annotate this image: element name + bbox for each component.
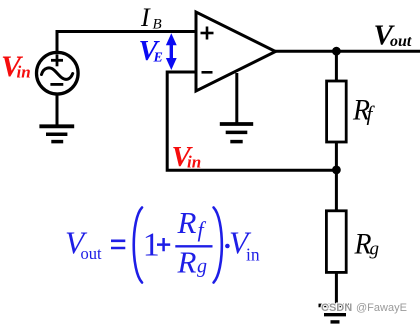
svg-text:R: R (177, 245, 197, 280)
svg-text:g: g (370, 239, 380, 260)
svg-text:CSDN: CSDN (321, 302, 352, 314)
svg-text:B: B (153, 17, 162, 33)
svg-text:E: E (153, 50, 163, 65)
svg-text:I: I (140, 3, 151, 32)
svg-text:in: in (187, 152, 201, 171)
svg-text:R: R (177, 205, 197, 240)
svg-text:out: out (81, 244, 103, 263)
svg-text:@FawayE: @FawayE (356, 302, 407, 314)
svg-text:out: out (390, 33, 412, 50)
svg-text:in: in (246, 245, 260, 265)
svg-text:g: g (197, 256, 207, 278)
svg-text:in: in (17, 63, 31, 82)
